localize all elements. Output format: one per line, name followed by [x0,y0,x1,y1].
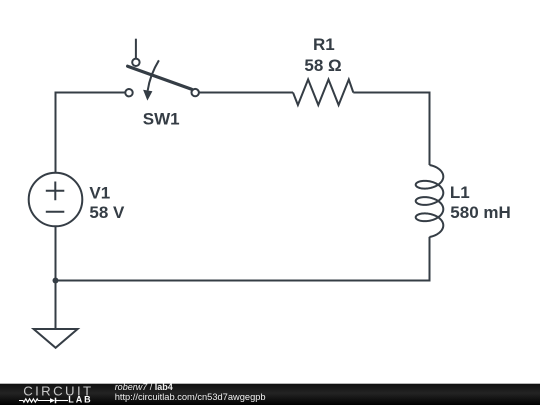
svg-text:V1: V1 [89,183,110,202]
svg-text:L1: L1 [450,183,470,202]
svg-text:roberw7 / lab4: roberw7 / lab4 [115,382,173,392]
svg-text:58 Ω: 58 Ω [304,56,341,75]
svg-text:http://circuitlab.com/cn53d7aw: http://circuitlab.com/cn53d7awgegpb [115,392,266,402]
svg-text:LAB: LAB [68,395,92,405]
svg-text:58 V: 58 V [89,203,125,222]
svg-text:R1: R1 [313,35,335,54]
svg-text:580 mH: 580 mH [450,203,510,222]
svg-text:SW1: SW1 [143,110,180,129]
